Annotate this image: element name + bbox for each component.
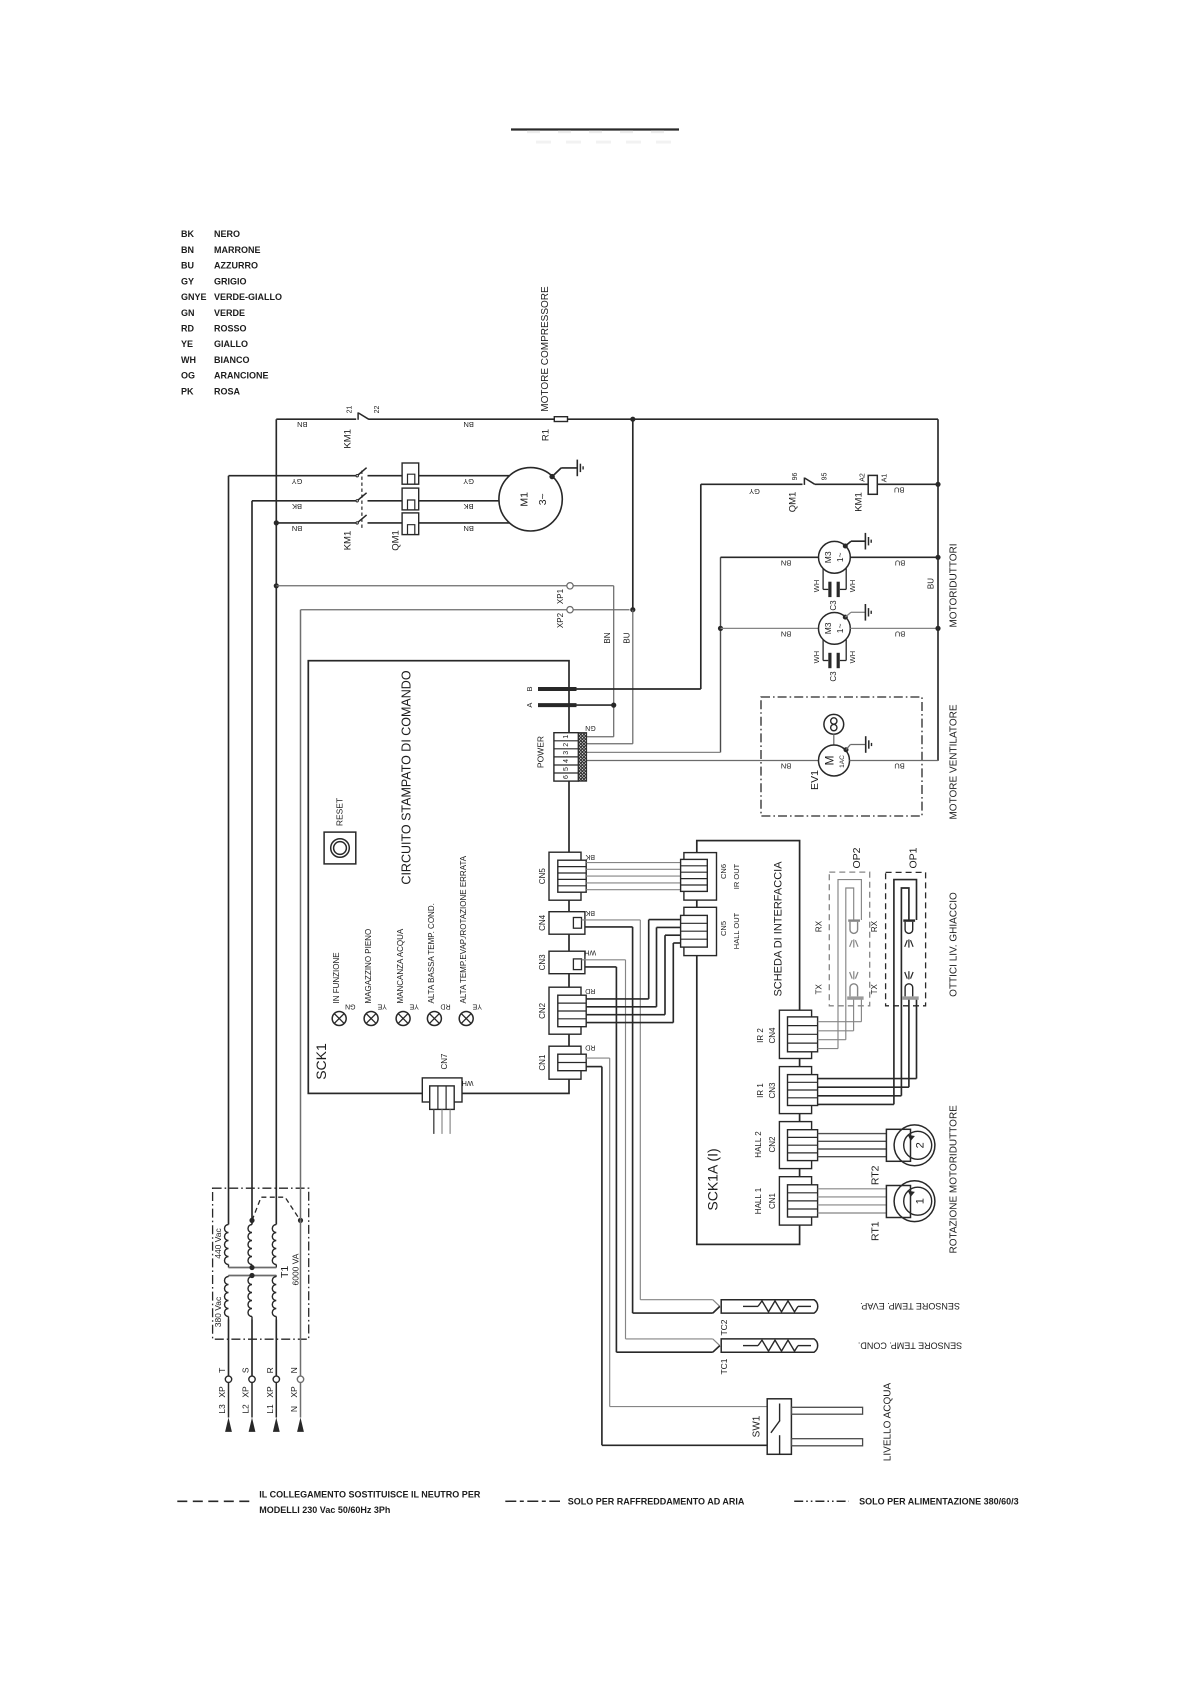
wire CN1 pin2 black [586, 1066, 602, 1068]
svg-text:XP1: XP1 [556, 588, 565, 604]
wire EV1 ground [846, 745, 850, 750]
svg-text:CN6: CN6 [719, 864, 728, 879]
connector CN7 [422, 1078, 462, 1102]
node M1 ground tap [549, 474, 554, 479]
svg-text:TX: TX [870, 983, 879, 994]
svg-text:BK: BK [585, 853, 595, 860]
wire fan shaft [833, 734, 835, 745]
wire coil to bus BU [877, 483, 938, 485]
switch SW1 water level [767, 1399, 791, 1455]
svg-text:T1: T1 [279, 1266, 291, 1278]
svg-text:MODELLI 230 Vac 50/60Hz 3Ph: MODELLI 230 Vac 50/60Hz 3Ph [259, 1505, 390, 1515]
svg-text:IN FUNZIONE: IN FUNZIONE [332, 952, 341, 1003]
node bus-coil [935, 482, 940, 487]
enclosure T1 dash-dot box [213, 1188, 309, 1339]
svg-text:OP1: OP1 [907, 847, 919, 868]
svg-text:SCHEDA DI INTERFACCIA: SCHEDA DI INTERFACCIA [772, 861, 784, 997]
wire CN3 pin1 gray [582, 959, 626, 961]
svg-text:TC2: TC2 [719, 1319, 729, 1335]
node bus M3-1 [935, 555, 940, 560]
transformer T1 primary 440V windings [225, 1225, 229, 1265]
svg-text:RD: RD [585, 987, 595, 994]
svg-text:1: 1 [914, 1198, 926, 1204]
ground symbol M3-2 [864, 604, 866, 621]
svg-text:IR OUT: IR OUT [732, 863, 741, 889]
svg-text:WH: WH [848, 580, 857, 593]
svg-text:MANCANZA ACQUA: MANCANZA ACQUA [396, 928, 405, 1003]
svg-text:YE: YE [409, 1002, 419, 1009]
legend dash-dot line air cooling [505, 1500, 560, 1502]
connector CN2 interface HALL 2 [779, 1122, 811, 1169]
svg-text:BU: BU [895, 629, 905, 638]
svg-text:BN: BN [297, 420, 307, 429]
svg-text:5: 5 [563, 767, 570, 771]
svg-text:SENSORE TEMP. COND.: SENSORE TEMP. COND. [858, 1340, 962, 1350]
svg-text:BU: BU [927, 578, 936, 589]
wire BK phase [252, 500, 356, 502]
svg-text:CN5: CN5 [538, 868, 547, 885]
rotation motor RT1 [886, 1186, 910, 1218]
svg-text:OG: OG [181, 371, 195, 381]
motor EV1 fan motor [819, 745, 850, 776]
legend dash-dot-dot line 380-60-3 [794, 1500, 849, 1502]
svg-text:N: N [289, 1367, 299, 1373]
svg-text:1AC: 1AC [839, 755, 846, 768]
wire XP1 right [573, 585, 614, 587]
svg-text:GNYE: GNYE [181, 292, 207, 302]
connector CN4 [549, 912, 585, 935]
svg-text:OTTICI LIV. GHIACCIO: OTTICI LIV. GHIACCIO [948, 892, 959, 997]
svg-text:1~: 1~ [835, 624, 845, 634]
wire SW1 bottom black [602, 1444, 767, 1446]
svg-text:KM1: KM1 [853, 492, 864, 512]
svg-text:6: 6 [563, 775, 570, 779]
svg-text:BIANCO: BIANCO [214, 355, 250, 365]
wire OP2 TX right [860, 999, 862, 1022]
wire CN4 pin1 gray [582, 919, 641, 921]
ground symbol M3-1 [864, 533, 866, 550]
svg-text:2: 2 [563, 743, 570, 747]
wire BU fan to bus [850, 760, 939, 762]
dashed neutral link [252, 1197, 300, 1220]
svg-text:RX: RX [870, 920, 879, 932]
wires HALL2 to RT2 [818, 1133, 887, 1135]
wires CN5 to CN6 interface [586, 862, 680, 864]
svg-text:RT2: RT2 [869, 1165, 881, 1185]
ground symbol EV1 [865, 736, 867, 753]
svg-text:BK: BK [181, 229, 194, 239]
svg-text:L3: L3 [217, 1404, 227, 1414]
svg-text:M1: M1 [518, 492, 530, 507]
svg-text:VERDE: VERDE [214, 308, 245, 318]
svg-text:R1: R1 [541, 429, 552, 441]
svg-text:XP: XP [265, 1386, 275, 1398]
ground symbol M1 [576, 460, 578, 477]
svg-text:YE: YE [181, 339, 193, 349]
svg-text:380 Vac: 380 Vac [213, 1296, 223, 1327]
svg-text:M3: M3 [823, 551, 833, 563]
svg-text:21: 21 [347, 406, 354, 414]
wire OP1 TX right [916, 999, 918, 1079]
legend dashed line 230V note [177, 1500, 250, 1502]
wire A to node [577, 704, 614, 706]
svg-text:2: 2 [914, 1142, 926, 1148]
svg-text:YE: YE [472, 1002, 482, 1009]
wire OP2 TX left [853, 999, 855, 1031]
sensor TC1 condenser probe [626, 1338, 713, 1340]
svg-text:CN2: CN2 [538, 1002, 547, 1019]
plug XP2 [567, 607, 573, 613]
svg-text:CN2: CN2 [768, 1136, 777, 1153]
svg-text:ALTA TEMP.EVAP./ROTAZIONE ERRA: ALTA TEMP.EVAP./ROTAZIONE ERRATA [459, 855, 468, 1003]
connector POWER [554, 733, 579, 781]
svg-text:1~: 1~ [835, 552, 845, 562]
svg-text:OP2: OP2 [851, 847, 863, 868]
svg-text:SW1: SW1 [751, 1415, 762, 1437]
connector CN5 interface HALL OUT [684, 907, 717, 955]
svg-text:MAGAZZINO PIENO: MAGAZZINO PIENO [364, 929, 373, 1004]
svg-text:BU: BU [181, 261, 194, 271]
svg-text:BN: BN [603, 632, 612, 643]
capacitor C3 motor2 [822, 640, 824, 661]
svg-text:CN1: CN1 [538, 1054, 547, 1071]
terminal L1 R [273, 1376, 279, 1382]
fan blade symbol [824, 714, 844, 734]
wire BU motor M3-2 [850, 627, 938, 629]
wires T1 to supply terminals [228, 1320, 230, 1377]
svg-text:SCK1A (I): SCK1A (I) [705, 1148, 721, 1210]
contact KM1 main BN [356, 522, 358, 524]
cable SW1 top pair [791, 1407, 862, 1414]
node EV1 ground tap [844, 747, 849, 752]
svg-text:SOLO PER RAFFREDDAMENTO AD ARI: SOLO PER RAFFREDDAMENTO AD ARIA [568, 1497, 745, 1507]
wire CN3 pin2 black [585, 966, 617, 968]
KM1 mechanical link dashed [361, 471, 363, 531]
svg-text:BK: BK [292, 502, 302, 511]
svg-text:MOTORE COMPRESSORE: MOTORE COMPRESSORE [540, 286, 551, 412]
svg-text:PK: PK [181, 386, 194, 396]
svg-text:A1: A1 [881, 474, 888, 483]
wire L3 vertical [228, 476, 230, 1225]
svg-text:ROSA: ROSA [214, 386, 241, 396]
terminal N [297, 1376, 303, 1382]
enclosure OP1 dashed box [886, 872, 926, 1005]
wires IR1 to OP1 [818, 1078, 917, 1080]
connector CN3 interface IR 1 [779, 1067, 811, 1114]
svg-text:ALTA BASSA TEMP. COND.: ALTA BASSA TEMP. COND. [427, 903, 436, 1003]
contact KM1 main GY [356, 475, 358, 477]
faded title text remnants [527, 131, 540, 134]
svg-text:NERO: NERO [214, 229, 240, 239]
contact KM1 main BK [356, 500, 358, 502]
wire CN4 pin2 black [585, 926, 633, 928]
svg-text:C3: C3 [829, 600, 838, 611]
svg-text:GY: GY [463, 477, 474, 486]
overload relay QM1 element BK [402, 488, 419, 510]
svg-text:CN4: CN4 [768, 1027, 777, 1044]
svg-text:RD: RD [181, 324, 194, 334]
svg-text:RD: RD [440, 1002, 450, 1009]
svg-text:GY: GY [181, 276, 194, 286]
node A-B feed wires [538, 687, 577, 691]
wire L2 vertical [251, 501, 253, 1225]
svg-text:GIALLO: GIALLO [214, 339, 248, 349]
svg-text:WH: WH [181, 355, 196, 365]
wire BU motor M3-1 [850, 556, 938, 558]
svg-text:ARANCIONE: ARANCIONE [214, 371, 269, 381]
svg-text:YE: YE [377, 1002, 387, 1009]
LED IN FUNZIONE [332, 1012, 346, 1026]
wire CN1 pin1 gray [586, 1057, 610, 1059]
svg-text:N: N [289, 1406, 299, 1412]
svg-text:3~: 3~ [537, 493, 549, 505]
node N tap [298, 1218, 303, 1223]
transformer T1 secondary 380V windings [228, 1276, 230, 1277]
svg-text:BU: BU [622, 632, 631, 643]
wires CN7 tails [433, 1109, 435, 1134]
wires CN2 to interface CN5 [586, 998, 649, 1000]
svg-text:XP: XP [289, 1386, 299, 1398]
svg-text:HALL 1: HALL 1 [754, 1187, 763, 1214]
svg-text:CN7: CN7 [440, 1053, 449, 1070]
svg-text:GN: GN [585, 724, 596, 731]
node A junction [611, 703, 616, 708]
capacitor C3 motor1 [822, 568, 824, 589]
wire N vertical [300, 610, 302, 1376]
node XP1 tee [274, 583, 279, 588]
wire BN top supply bus [276, 418, 356, 420]
svg-text:WH: WH [584, 948, 596, 955]
connector CN2 [549, 987, 581, 1034]
svg-text:ROTAZIONE MOTORIDUTTORE: ROTAZIONE MOTORIDUTTORE [948, 1105, 959, 1254]
wire GY phase [229, 475, 357, 477]
rotation motor RT2 [886, 1129, 910, 1161]
wire BN from XP1 down to node A [613, 586, 615, 737]
wire XP2 right [573, 609, 629, 611]
wire OP1 RX loop outer [894, 880, 917, 1105]
svg-text:M: M [822, 756, 836, 766]
svg-text:KM1: KM1 [342, 531, 353, 551]
svg-text:XP2: XP2 [556, 612, 565, 628]
svg-text:EV1: EV1 [809, 770, 821, 790]
overload relay QM1 element BN [402, 513, 419, 535]
wire XP2 [301, 609, 567, 611]
button RESET [324, 832, 356, 864]
svg-text:TC1: TC1 [719, 1358, 729, 1374]
sensor TC2 evaporator probe [640, 1299, 713, 1301]
svg-text:HALL 2: HALL 2 [754, 1131, 763, 1158]
svg-text:WH: WH [812, 580, 821, 593]
wires IR2 to OP2 [818, 1021, 862, 1023]
wire OP2 RX loop outer [838, 880, 861, 1049]
svg-text:MARRONE: MARRONE [214, 245, 261, 255]
svg-text:GRIGIO: GRIGIO [214, 276, 247, 286]
wire GY control from node B [577, 688, 701, 690]
board SCK1 outline [308, 661, 569, 1094]
plug XP1 [567, 583, 573, 589]
svg-text:MOTORIDUTTORI: MOTORIDUTTORI [948, 543, 959, 627]
svg-text:GN: GN [181, 308, 195, 318]
svg-text:AZZURRO: AZZURRO [214, 261, 258, 271]
cable SW1 bottom pair [791, 1439, 862, 1446]
board SCK1A outline [697, 841, 800, 1245]
resistor R1 [554, 417, 567, 422]
svg-text:XP: XP [217, 1386, 227, 1398]
title rule line [511, 128, 679, 130]
svg-text:POWER: POWER [536, 736, 546, 768]
wires HALL1 to RT1 [818, 1188, 887, 1190]
LED MAGAZZINO PIENO [364, 1012, 378, 1026]
optical sensor OP2 RX TX [848, 919, 860, 921]
svg-text:GN: GN [345, 1002, 356, 1009]
node M3 common [718, 626, 723, 631]
svg-text:L2: L2 [241, 1404, 251, 1414]
svg-text:BU: BU [894, 486, 904, 495]
node M3-1 ground tap [843, 544, 848, 549]
junction dot node BU top [630, 417, 635, 422]
wire BN phase [274, 520, 279, 525]
terminal L2 S [249, 1376, 255, 1382]
wire BN motors common vertical [720, 557, 722, 752]
svg-text:6000 VA: 6000 VA [291, 1253, 301, 1285]
svg-text:WH: WH [848, 651, 857, 664]
svg-text:SENSORE TEMP. EVAP.: SENSORE TEMP. EVAP. [860, 1301, 960, 1311]
svg-text:ROSSO: ROSSO [214, 324, 247, 334]
svg-text:M3: M3 [823, 622, 833, 634]
svg-text:4: 4 [563, 759, 570, 763]
wire BN motor M3-1 [721, 556, 819, 558]
LED ALTA TEMP EVAP ROTAZIONE ERRATA [459, 1012, 473, 1026]
svg-text:SOLO PER ALIMENTAZIONE 380/60/: SOLO PER ALIMENTAZIONE 380/60/3 [859, 1497, 1019, 1507]
wire OP1 RX loop inner [901, 888, 909, 1096]
svg-text:XP: XP [241, 1386, 251, 1398]
svg-text:IL COLLEGAMENTO SOSTITUISCE IL: IL COLLEGAMENTO SOSTITUISCE IL NEUTRO PE… [259, 1489, 481, 1499]
svg-text:CN3: CN3 [538, 954, 547, 971]
contact QM1 95-96 [803, 478, 805, 485]
connector CN1 [549, 1046, 581, 1079]
svg-text:IR 2: IR 2 [756, 1028, 765, 1043]
svg-text:RESET: RESET [335, 798, 345, 826]
svg-text:CN4: CN4 [538, 914, 547, 931]
motor M3 gear motor 2 [819, 613, 851, 645]
LED ALTA BASSA TEMP COND [427, 1012, 441, 1026]
svg-text:WH: WH [462, 1079, 474, 1086]
wire BU to POWER pin2 [632, 610, 634, 744]
svg-text:CN5: CN5 [719, 921, 728, 936]
svg-text:CN3: CN3 [768, 1082, 777, 1099]
svg-text:A: A [525, 703, 534, 708]
terminal L3 T [225, 1376, 231, 1382]
wire M1 to ground [552, 468, 561, 477]
node L2 tap [249, 1218, 254, 1223]
svg-text:BN: BN [292, 524, 302, 533]
wire OP1 TX left [908, 999, 910, 1087]
wire M3-2 ground [845, 612, 851, 617]
wire 380V tie bus [229, 1275, 277, 1277]
svg-text:440 Vac: 440 Vac [213, 1227, 223, 1258]
svg-text:BN: BN [463, 524, 473, 533]
connector CN4 interface IR 2 [779, 1010, 811, 1058]
node XP2-BU junction [630, 607, 635, 612]
wire BU right bus [937, 419, 939, 761]
enclosure EV1 dash-dot box [761, 697, 922, 816]
node bus M3-2 [935, 626, 940, 631]
svg-text:BN: BN [781, 629, 791, 638]
svg-text:LIVELLO ACQUA: LIVELLO ACQUA [882, 1382, 893, 1461]
LED MANCANZA ACQUA [396, 1012, 410, 1026]
svg-text:WH: WH [812, 651, 821, 664]
connector CN5 [549, 852, 581, 900]
motor M1 compressor [499, 468, 562, 531]
svg-text:BK: BK [585, 909, 595, 916]
svg-text:22: 22 [374, 406, 381, 414]
svg-text:KM1: KM1 [342, 429, 353, 449]
svg-text:HALL OUT: HALL OUT [732, 912, 741, 949]
optical sensor OP1 RX TX [903, 919, 915, 921]
svg-text:QM1: QM1 [390, 530, 401, 551]
svg-text:95: 95 [821, 473, 828, 481]
svg-text:RD: RD [585, 1044, 595, 1051]
wire 440V tie bus [229, 1267, 277, 1269]
svg-text:1: 1 [563, 735, 570, 739]
svg-text:96: 96 [792, 473, 799, 481]
svg-text:GY: GY [292, 477, 303, 486]
svg-text:BN: BN [463, 420, 473, 429]
wire BN motor M3-2 [721, 627, 819, 629]
svg-text:3: 3 [563, 751, 570, 755]
coil KM1 [868, 475, 877, 494]
svg-text:B: B [525, 686, 534, 691]
connector CN1 interface HALL 1 [779, 1177, 811, 1225]
svg-text:TX: TX [815, 983, 824, 994]
svg-text:C3: C3 [829, 671, 838, 682]
svg-text:T: T [217, 1368, 227, 1373]
svg-text:GY: GY [749, 487, 760, 496]
svg-text:BN: BN [781, 762, 791, 771]
svg-text:MOTORE VENTILATORE: MOTORE VENTILATORE [948, 704, 959, 819]
svg-text:R: R [265, 1367, 275, 1373]
contact KM1 21-22 [357, 412, 359, 419]
svg-text:CIRCUITO STAMPATO DI COMANDO: CIRCUITO STAMPATO DI COMANDO [400, 670, 414, 884]
svg-text:QM1: QM1 [787, 492, 798, 513]
svg-text:CN1: CN1 [768, 1192, 777, 1209]
wire SW1 top gray [610, 1406, 768, 1408]
motor M3 gear motor 1 [819, 541, 851, 573]
overload relay QM1 element GY [402, 463, 419, 484]
wire BU bus down [632, 419, 634, 610]
enclosure OP2 dashed box [829, 872, 869, 1006]
wire OP2 RX loop inner [846, 888, 854, 1040]
svg-text:L1: L1 [265, 1404, 275, 1414]
svg-text:BN: BN [781, 558, 791, 567]
svg-text:BU: BU [894, 762, 904, 771]
svg-text:BU: BU [895, 558, 905, 567]
svg-text:RX: RX [815, 920, 824, 932]
svg-text:BK: BK [464, 502, 474, 511]
svg-text:VERDE-GIALLO: VERDE-GIALLO [214, 292, 282, 302]
wire left bus vertical L1 [275, 419, 277, 1224]
svg-text:BN: BN [181, 245, 194, 255]
svg-text:RT1: RT1 [869, 1221, 881, 1241]
wire BN fan from POWER pin4 [587, 760, 819, 762]
svg-text:S: S [241, 1367, 251, 1373]
wire XP1 [276, 585, 567, 587]
svg-text:A2: A2 [860, 473, 867, 482]
wire M3-1 ground [845, 541, 851, 546]
svg-text:IR 1: IR 1 [756, 1083, 765, 1098]
connector CN3 [549, 951, 585, 974]
svg-text:SCK1: SCK1 [313, 1043, 329, 1080]
